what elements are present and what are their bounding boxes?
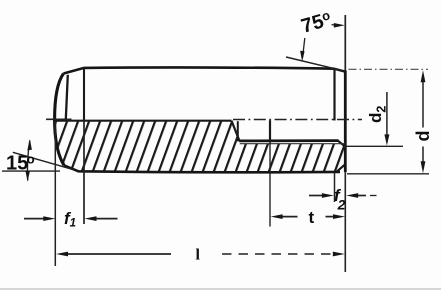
svg-text:t: t: [309, 208, 315, 227]
svg-text:f1: f1: [64, 209, 76, 230]
svg-text:d: d: [413, 131, 433, 142]
svg-text:f2: f2: [334, 186, 346, 213]
svg-text:75o: 75o: [299, 7, 334, 37]
svg-text:l: l: [196, 247, 201, 264]
svg-text:d2: d2: [366, 106, 389, 123]
